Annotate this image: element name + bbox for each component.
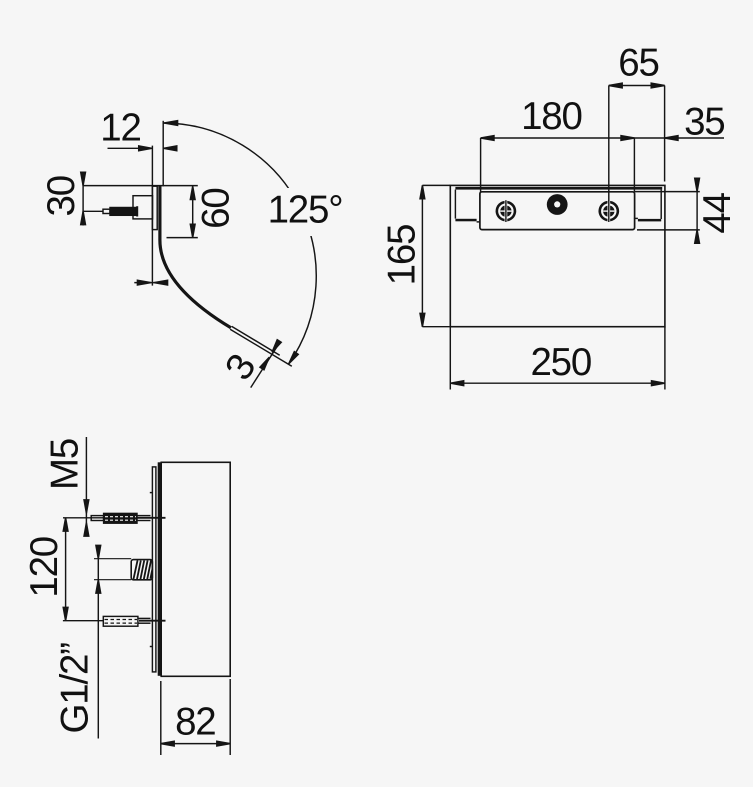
dimension 82 xyxy=(161,743,230,745)
wire: top screw centerline extension xyxy=(63,517,103,519)
angle arc 125 xyxy=(163,123,316,364)
dimension 250 xyxy=(450,382,665,384)
svg-text:120: 120 xyxy=(23,537,66,598)
top screw shaft xyxy=(137,515,151,517)
svg-text:35: 35 xyxy=(684,100,724,143)
dimension 12 line xyxy=(108,147,153,149)
top screw centerline through plate xyxy=(137,517,166,519)
wire: screw centerline extension xyxy=(83,210,104,212)
screw flange tick xyxy=(136,206,138,216)
svg-text:125°: 125° xyxy=(268,189,343,232)
bracket step tick bottom xyxy=(150,646,153,648)
dimension 60 line xyxy=(192,186,194,238)
mounting plate (front) xyxy=(480,192,635,230)
wire: 60 bottom extension xyxy=(167,237,198,239)
dimension M5 xyxy=(85,437,87,535)
svg-text:180: 180 xyxy=(521,95,582,138)
dimension 120 xyxy=(65,518,67,621)
top screw M5 tip xyxy=(91,516,103,521)
wire: unlabeled zero dimension at panel base xyxy=(134,282,166,284)
svg-text:44: 44 xyxy=(696,192,739,233)
curved glass panel (side view) xyxy=(160,186,231,328)
svg-text:G1/2”: G1/2” xyxy=(53,643,96,734)
panel top edge thick bar xyxy=(455,187,662,190)
screw threaded body (side view) xyxy=(110,208,136,216)
dimension 165 xyxy=(421,185,423,326)
bottom dowel shaft xyxy=(138,617,151,619)
screw tip (side view) xyxy=(103,209,110,213)
svg-text:12: 12 xyxy=(100,107,140,150)
panel end outer face line xyxy=(230,329,292,366)
body rectangle (front) xyxy=(450,185,665,326)
svg-text:65: 65 xyxy=(618,41,658,84)
wire: wall face line xyxy=(151,146,153,286)
bracket left outline xyxy=(454,190,456,219)
bracket plate (top view) xyxy=(152,467,156,672)
G1/2 connector threaded block xyxy=(131,560,152,580)
svg-text:165: 165 xyxy=(380,225,423,286)
panel end inner face line xyxy=(232,326,280,355)
clamp block (side view) xyxy=(133,196,153,219)
svg-text:82: 82 xyxy=(175,700,215,743)
wire: bottom dowel centerline extension xyxy=(63,620,103,622)
dimension 180 / 35 shared line xyxy=(481,137,724,139)
dimension 65 xyxy=(609,85,665,87)
screw right xyxy=(598,200,619,222)
dimension 44 xyxy=(635,191,700,193)
wire: plate top extension line xyxy=(83,185,198,187)
connector dimension extension lines xyxy=(94,558,131,560)
body rectangle (top view) xyxy=(161,462,230,676)
connector dimension + G1/2 leader line xyxy=(97,547,99,739)
screw left xyxy=(496,200,517,222)
svg-text:250: 250 xyxy=(530,341,591,384)
wire: 12-dim right extension / angle reference line xyxy=(162,121,164,187)
dimension 30 line xyxy=(82,172,84,226)
center hole xyxy=(547,194,568,215)
panel front face thick bar xyxy=(158,462,162,676)
svg-text:60: 60 xyxy=(194,188,237,228)
bracket step tick top xyxy=(150,492,153,494)
svg-text:30: 30 xyxy=(40,176,83,216)
svg-text:M5: M5 xyxy=(44,439,87,490)
bracket right outline xyxy=(660,190,662,219)
top screw M5 threaded body xyxy=(104,513,137,523)
label 125deg mask xyxy=(262,188,350,236)
bottom dowel body xyxy=(103,616,138,626)
bottom dowel centerline through plate xyxy=(139,620,166,622)
dimension 3 leader xyxy=(251,346,278,388)
bracket plate (side view) xyxy=(152,186,157,229)
